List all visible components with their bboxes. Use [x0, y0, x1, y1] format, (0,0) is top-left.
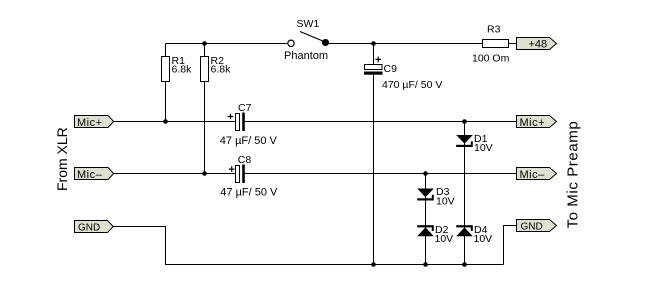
svg-text:C9: C9: [384, 63, 398, 75]
svg-text:Mic+: Mic+: [77, 117, 103, 129]
svg-text:6.8k: 6.8k: [211, 64, 232, 76]
svg-text:10V: 10V: [435, 233, 454, 245]
svg-text:Mic–: Mic–: [520, 169, 546, 181]
svg-text:+48: +48: [529, 39, 548, 51]
svg-text:C8: C8: [238, 154, 252, 166]
svg-text:100 Om: 100 Om: [472, 53, 510, 65]
svg-text:Phantom: Phantom: [284, 50, 328, 62]
svg-text:47 µF/ 50 V: 47 µF/ 50 V: [220, 186, 278, 198]
svg-text:GND: GND: [78, 223, 100, 234]
svg-text:Mic–: Mic–: [77, 169, 103, 181]
svg-text:470 µF/ 50 V: 470 µF/ 50 V: [382, 79, 442, 91]
svg-text:To Mic Preamp: To Mic Preamp: [565, 121, 582, 229]
svg-text:C7: C7: [238, 102, 252, 114]
svg-text:SW1: SW1: [297, 18, 320, 30]
svg-text:10V: 10V: [474, 142, 493, 154]
svg-text:47 µF/ 50 V: 47 µF/ 50 V: [220, 135, 278, 147]
svg-text:10V: 10V: [436, 196, 455, 208]
svg-text:10V: 10V: [474, 233, 493, 245]
svg-text:GND: GND: [521, 222, 543, 233]
svg-text:Mic+: Mic+: [520, 117, 546, 129]
svg-text:R3: R3: [487, 23, 501, 35]
svg-text:6.8k: 6.8k: [172, 64, 193, 76]
svg-text:From XLR: From XLR: [54, 127, 70, 191]
